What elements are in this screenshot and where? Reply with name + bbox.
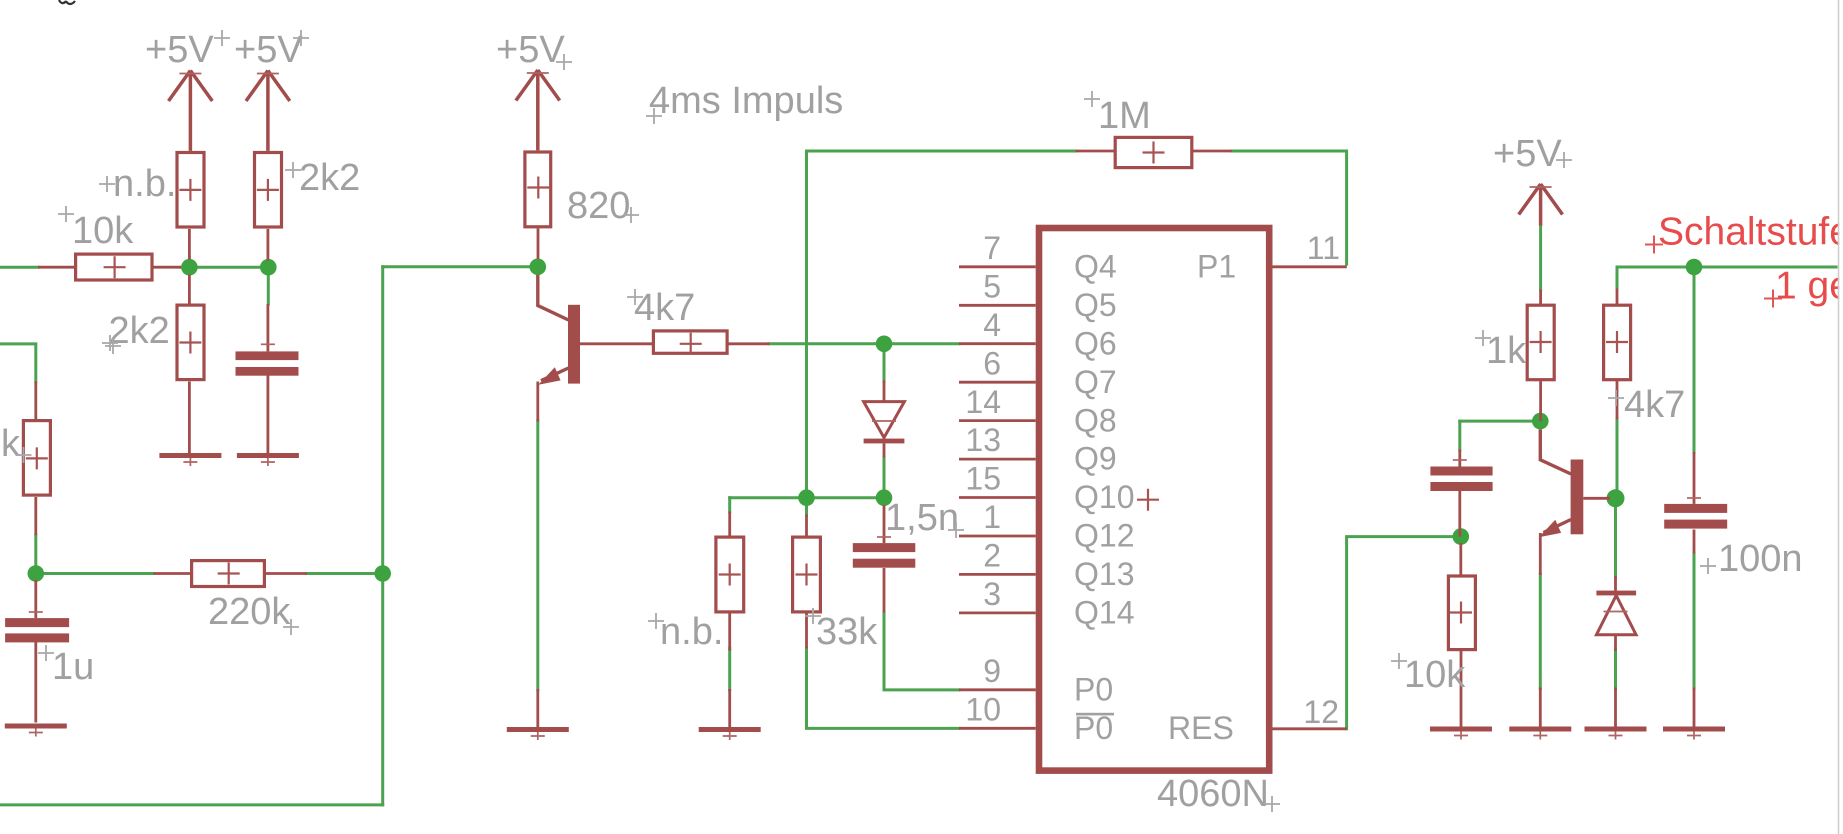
origin cross label 10k R10: [1391, 653, 1407, 669]
svg-text:100n: 100n: [1718, 538, 1803, 580]
supply +5V arrow 1: [169, 71, 213, 151]
svg-text:3: 3: [983, 576, 1001, 612]
wire stub C3 top: [1458, 450, 1461, 467]
resistor 10k R0: [76, 254, 152, 280]
wire diode D2 bottom to ground: [1614, 650, 1617, 689]
svg-text:1k: 1k: [1486, 330, 1527, 372]
ground bar under 10k R10: [1430, 727, 1492, 732]
pin 9 lead: [959, 688, 1036, 691]
svg-text:Q7: Q7: [1074, 364, 1117, 400]
wire stub C5 to ground: [34, 641, 37, 723]
wire output riser from node G up to 1M rail: [807, 151, 1076, 498]
origin cross D2: [1604, 611, 1628, 613]
ground bar under n.b. R4: [699, 727, 761, 732]
pin 15 lead: [959, 496, 1036, 499]
origin cross label 1,5n C2: [948, 522, 964, 538]
svg-text:14: 14: [965, 384, 1001, 420]
wire stub node A to 2k2 R3: [188, 275, 191, 304]
pin 5 lead: [959, 304, 1036, 307]
node D junction dot: [374, 565, 391, 582]
ground bar under D2: [1585, 727, 1647, 732]
origin cross C4: [1687, 497, 1701, 499]
svg-text:+5V: +5V: [1493, 133, 1562, 175]
wire stub C1 to ground: [266, 376, 269, 454]
transistor T1 emitter lead: [541, 368, 569, 381]
pin 3 lead: [959, 612, 1036, 615]
resistor 2k2 R3: [177, 305, 204, 380]
svg-text:1M: 1M: [1098, 95, 1151, 137]
svg-text:+5V: +5V: [496, 29, 565, 71]
svg-text:2: 2: [983, 538, 1001, 574]
origin cross net marker: [102, 335, 118, 351]
wire transistor T1 emitter to ground: [536, 421, 539, 691]
node H junction dot: [1532, 413, 1549, 430]
wire 100n bottom to ground: [1693, 553, 1696, 689]
wire stub 10k left: [38, 266, 76, 269]
ground bar under T1: [507, 727, 569, 732]
capacitor C4 100n plate 1: [1664, 504, 1727, 513]
node A junction dot: [181, 259, 198, 276]
wire stub C4 ground: [1693, 688, 1696, 728]
svg-text:Q12: Q12: [1074, 518, 1134, 554]
svg-text:4k7: 4k7: [1624, 384, 1685, 426]
wire stub C4 bottom: [1693, 530, 1696, 554]
origin cross R11: [26, 447, 48, 469]
svg-text:Q5: Q5: [1074, 287, 1117, 323]
resistor 1k R13: [1527, 305, 1554, 380]
wire left-edge to 10k resistor: [0, 266, 38, 269]
origin cross label 33k R7: [805, 608, 821, 624]
wire stub 4k7 R5 right: [729, 342, 770, 345]
node I junction dot: [1453, 528, 1470, 545]
wire stub diode D1 bottom: [883, 443, 886, 457]
origin cross C5: [29, 611, 43, 613]
ground origin cross T2: [1533, 732, 1547, 740]
origin cross R7: [796, 564, 818, 586]
svg-text:Q6: Q6: [1074, 325, 1117, 361]
ground origin cross C4: [1687, 732, 1701, 740]
capacitor C5 1u plate 1: [5, 618, 69, 627]
svg-text:k: k: [1, 423, 21, 465]
origin cross label 1M R8: [1084, 91, 1100, 107]
wire 1M to pin-11 drop: [1232, 151, 1347, 264]
wire stub 220k left: [154, 572, 192, 575]
wire stub C2 bottom: [883, 568, 886, 613]
origin cross C2: [877, 536, 891, 538]
transistor T2 base bar: [1571, 460, 1584, 535]
svg-text:820: 820: [567, 185, 630, 227]
capacitor C5 1u plate 2: [5, 633, 69, 642]
pin 2 lead: [959, 573, 1036, 576]
origin cross label 4k7 R5: [627, 289, 643, 305]
op-amp/IC U1 4060N body: [1039, 228, 1269, 771]
svg-text:+5V: +5V: [234, 29, 303, 71]
wire stub diode D2 bottom: [1614, 635, 1617, 651]
wire stub T2 emitter ground: [1539, 688, 1542, 728]
wire stub 2k2 R3 to ground: [188, 382, 191, 454]
capacitor C3 plate 1: [1430, 467, 1492, 476]
origin cross label k R11: [16, 447, 32, 463]
origin cross R0: [104, 256, 126, 278]
origin cross R2: [257, 179, 279, 201]
origin cross label 2k2 R3: [105, 338, 121, 354]
wire stub 10k right: [153, 266, 182, 269]
ground bar under C5 1u: [5, 724, 67, 729]
svg-text:10k: 10k: [1404, 654, 1466, 696]
svg-text:Q4: Q4: [1074, 249, 1117, 285]
resistor 33k R7: [793, 537, 821, 612]
svg-text:Q10: Q10: [1074, 479, 1134, 515]
origin cross R9: [1606, 331, 1628, 353]
capacitor C4 100n plate 2: [1664, 520, 1727, 529]
wire C2 1,5n bottom to pin 9: [884, 612, 959, 690]
wire n.b. R4 top stub: [728, 498, 731, 512]
wire stub 4k7 R9 top: [1616, 289, 1619, 305]
resistor 1M R8: [1115, 137, 1192, 167]
svg-text:1: 1: [983, 499, 1001, 535]
svg-text:P1: P1: [1197, 249, 1236, 285]
svg-text:1u: 1u: [52, 646, 94, 688]
origin cross Schaltstufe: [1645, 236, 1663, 254]
origin cross label +5V 3: [556, 54, 572, 70]
wire stub n.b. R4 bottom: [728, 614, 731, 651]
svg-text:10k: 10k: [72, 210, 134, 252]
wire stub C3 bottom to node I: [1458, 491, 1461, 537]
origin cross label +5V 4: [1556, 152, 1572, 168]
origin cross 1 ge: [1764, 290, 1782, 308]
ground origin cross 2k2 R3: [183, 458, 197, 466]
node G junction dot: [798, 489, 815, 506]
capacitor C2 1,5n plate 2: [853, 559, 916, 568]
ground origin cross T1: [531, 732, 545, 740]
origin cross label 100n C4: [1700, 558, 1716, 574]
wire left-edge entry to base resistor k: [0, 344, 36, 382]
wire node F rail to n.b. R4 corner: [730, 496, 884, 499]
origin cross R13: [1530, 331, 1552, 353]
svg-text:9: 9: [983, 653, 1001, 689]
transistor T1 emitter arrow: [538, 367, 560, 385]
wire 1k bottom node H rail to C3: [1460, 420, 1541, 423]
wire node B to capacitor C1: [267, 267, 270, 304]
svg-text:RES: RES: [1168, 710, 1234, 746]
wire n.b. R4 bottom to ground: [728, 648, 731, 690]
resistor n.b. R1: [177, 153, 204, 228]
wire stub T2 emitter to net: [1539, 533, 1542, 575]
ground origin cross C5: [29, 729, 43, 737]
pin 6 lead: [959, 381, 1036, 384]
wire stub diode D1 top: [883, 381, 886, 402]
origin cross R10: [1450, 602, 1472, 624]
origin cross C1: [261, 343, 275, 345]
supply +5V arrow 4: [1519, 184, 1563, 226]
overline of inverted P0: [1076, 713, 1114, 716]
wire stub C4 top: [1693, 452, 1696, 504]
origin cross label 4060N U1: [1264, 796, 1280, 812]
node B junction dot: [260, 259, 277, 276]
svg-text:4k7: 4k7: [634, 287, 695, 329]
origin cross label n.b. R1: [99, 176, 115, 192]
wire 4k7 (right) bottom to base node K: [1616, 419, 1619, 498]
svg-text:6: 6: [983, 345, 1001, 381]
resistor n.b. R4: [716, 537, 744, 612]
diode D2 body: [1596, 595, 1636, 634]
wire node E to diode D1: [883, 351, 886, 381]
svg-text:n.b.: n.b.: [113, 163, 176, 205]
node K junction dot: [1607, 489, 1625, 507]
capacitor C3 plate 2: [1430, 482, 1492, 491]
supply +5V arrow 3: [516, 70, 560, 150]
pin 13 lead: [959, 458, 1036, 461]
pin 4 lead: [959, 342, 1036, 345]
wire stub 10k R10 ground: [1460, 651, 1463, 727]
pin cross +5V 2: [257, 73, 279, 75]
svg-text:220k: 220k: [208, 591, 291, 633]
ground bar under C1: [237, 453, 299, 458]
wire k resistor bottom to node C: [34, 535, 37, 573]
origin cross R8: [1143, 142, 1165, 164]
resistor 820 R6: [525, 152, 551, 227]
svg-text:15: 15: [965, 461, 1001, 497]
capacitor C2 1,5n plate 1: [853, 543, 916, 552]
wire stub 33k bottom: [805, 614, 808, 649]
svg-text:5: 5: [983, 268, 1001, 304]
svg-text:1 ge: 1 ge: [1775, 265, 1843, 308]
origin cross R3: [179, 332, 201, 354]
wire stub 220k right: [266, 572, 307, 575]
diode D1 body: [864, 402, 905, 438]
svg-text:P0: P0: [1074, 671, 1113, 707]
wire 33k bottom to pin 10: [807, 648, 960, 728]
resistor 4k7 R9: [1604, 305, 1631, 380]
origin cross label 2k2 R2: [285, 162, 301, 178]
wire 33k top to node G: [805, 498, 808, 515]
SECTION:WIRES-END: [36, 151, 1694, 727]
wire node C to 220k: [36, 572, 154, 575]
wire stub 2k2 R2 bottom: [266, 229, 269, 261]
wire stub 1k top: [1539, 290, 1542, 305]
origin cross label 1k R13: [1475, 330, 1491, 346]
resistor k R11: [23, 421, 50, 496]
pin cross +5V 1: [179, 73, 201, 75]
origin cross label +5V 1: [214, 30, 230, 46]
wire stub 820 bottom: [537, 228, 540, 259]
svg-text:Q8: Q8: [1074, 402, 1117, 438]
ground origin cross C1: [261, 458, 275, 466]
svg-text:2k2: 2k2: [299, 157, 360, 199]
resistor 2k2 R2: [255, 153, 282, 228]
wire output node J drop to 100n: [1693, 267, 1696, 453]
wire stub 1M left: [1076, 150, 1117, 153]
ground origin cross R10: [1454, 732, 1468, 740]
wire 220k to riser node D: [307, 572, 383, 575]
svg-text:Schaltstufe: Schaltstufe: [1658, 211, 1843, 254]
wire stub 1M right: [1192, 150, 1232, 153]
svg-text:4: 4: [983, 307, 1001, 343]
origin cross R1: [179, 179, 201, 201]
wire stub node B to C1: [266, 304, 269, 351]
transistor T2 emitter arrow: [1539, 520, 1561, 538]
transistor T2 base lead: [1583, 497, 1610, 500]
capacitor C1 plate 2: [236, 367, 299, 376]
wire stub 1k bottom to node H: [1539, 381, 1542, 422]
origin cross D1: [872, 420, 896, 422]
origin cross label 1u C5: [38, 645, 54, 661]
pin cross +5V 4: [1530, 186, 1552, 188]
diode D2 cathode bar: [1596, 591, 1636, 596]
svg-text:33k: 33k: [816, 611, 878, 653]
pin 1 lead: [959, 535, 1036, 538]
origin cross label n.b. R4: [648, 613, 664, 629]
origin cross R12: [218, 563, 240, 585]
origin cross label 220k R12: [283, 619, 299, 635]
transistor T2 collector: [1540, 429, 1571, 474]
origin cross R4: [719, 564, 741, 586]
svg-text:7: 7: [983, 230, 1001, 266]
wire stub diode D2 ground: [1614, 688, 1617, 728]
supply +5V arrow 2: [246, 71, 290, 151]
ground origin cross R4: [723, 732, 737, 740]
svg-text:12: 12: [1303, 694, 1339, 730]
pin 14 lead: [959, 419, 1036, 422]
origin cross R6: [527, 177, 549, 199]
svg-text:Q9: Q9: [1074, 441, 1117, 477]
clipped glyph at top edge: [59, 0, 75, 4]
wire stub diode D2 top: [1614, 576, 1617, 591]
origin cross C3: [1453, 459, 1467, 461]
pin 12 lead: [1273, 727, 1347, 730]
svg-text:n.b.: n.b.: [660, 611, 723, 653]
ground bar under 2k2 R3: [159, 453, 221, 458]
wire stub node C to C5: [34, 580, 37, 618]
wire n.b. R1 bottom to node A: [188, 259, 191, 267]
wire stub 4k7 R9 bottom: [1616, 381, 1619, 420]
transistor T2 emitter lead: [1544, 520, 1572, 533]
ground bar under T2: [1509, 727, 1571, 732]
wire pin 12 riser and run to node I: [1347, 537, 1461, 729]
origin cross label 4ms Impuls: [646, 108, 662, 124]
wire stub T1 emitter to net: [536, 382, 539, 422]
svg-text:1,5n: 1,5n: [885, 497, 959, 539]
wire diode D1 to node F: [883, 457, 886, 498]
transistor T1 base lead: [580, 342, 653, 345]
wire stub 33k top: [805, 515, 808, 537]
node J junction dot: [1686, 259, 1703, 276]
IC U1 origin cross: [1137, 489, 1159, 511]
wire stub n.b. R4 top: [728, 512, 731, 537]
svg-text:13: 13: [965, 422, 1001, 458]
svg-text:4060N: 4060N: [1157, 773, 1269, 815]
canvas right border: [1838, 0, 1840, 834]
origin cross label 10k R0: [58, 206, 74, 222]
svg-text:10: 10: [965, 691, 1001, 727]
resistor 4k7 R5: [653, 331, 727, 353]
resistor 10k R10: [1448, 576, 1475, 650]
node 820/T1 junction dot: [530, 259, 547, 276]
transistor T1 collector: [538, 275, 569, 320]
svg-text:Q14: Q14: [1074, 595, 1134, 631]
svg-text:11: 11: [1307, 230, 1340, 266]
wire T2 emitter to ground: [1539, 574, 1542, 689]
pin 10 lead: [959, 727, 1036, 730]
node F junction dot: [876, 489, 893, 506]
origin cross label 820 R6: [623, 207, 639, 223]
pin 11 lead: [1273, 265, 1347, 268]
wire stub C2 top: [883, 505, 886, 543]
wire 4k7 to node E and pin 4: [769, 342, 959, 345]
svg-text:4ms Impuls: 4ms Impuls: [649, 80, 843, 122]
wire 4k7 (right) top to output rail: [1617, 267, 1836, 288]
canvas edge mask: [1839, 0, 1843, 834]
origin cross label 4k7 R9: [1608, 390, 1624, 406]
pin cross +5V 3: [527, 72, 549, 74]
pin 7 lead: [959, 265, 1036, 268]
origin cross label +5V 2: [293, 30, 309, 46]
node E junction dot: [876, 336, 893, 353]
ground origin cross D2: [1609, 732, 1623, 740]
svg-text:Q13: Q13: [1074, 556, 1134, 592]
wire stub k resistor bottom: [34, 497, 37, 535]
ground bar under C4 100n: [1663, 727, 1725, 732]
wire bottom rail to left edge: [0, 803, 383, 806]
transistor T1 base bar: [568, 305, 580, 384]
node C junction dot: [28, 565, 45, 582]
origin cross R5: [680, 333, 702, 355]
wire node K to diode D2: [1614, 507, 1617, 577]
wire top rail from vertical riser to 820 node: [383, 265, 538, 268]
wire long vertical riser x=383: [381, 267, 384, 805]
resistor 220k R12: [192, 561, 265, 587]
wire stub node I to 10k R10: [1459, 543, 1462, 575]
diode D1 cathode bar: [864, 439, 905, 444]
wire stub T1 emitter ground: [536, 689, 539, 727]
wire stub k resistor top: [34, 382, 37, 420]
wire stub n.b. R4 ground: [728, 689, 731, 727]
wire stub n.b. R1 bottom: [188, 229, 191, 260]
svg-text:+5V: +5V: [145, 29, 214, 71]
wire +5V to 1k (right): [1539, 225, 1542, 290]
capacitor C1 plate 1: [236, 351, 299, 360]
wire 10k to junction A and junction B rail: [181, 266, 268, 269]
wire C3 top drop: [1458, 421, 1461, 450]
